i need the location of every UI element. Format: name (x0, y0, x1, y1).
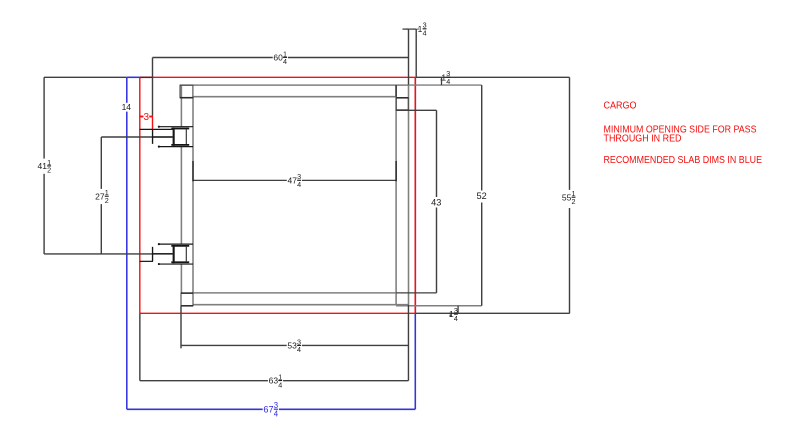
svg-text:63: 63 (269, 376, 279, 386)
svg-text:55: 55 (562, 192, 572, 202)
svg-text:4: 4 (278, 380, 282, 389)
svg-text:4: 4 (297, 345, 301, 354)
svg-text:3: 3 (144, 112, 150, 123)
svg-text:67: 67 (263, 405, 273, 415)
svg-text:53: 53 (287, 341, 297, 351)
svg-text:14: 14 (122, 102, 132, 112)
svg-text:52: 52 (476, 191, 486, 201)
svg-text:4: 4 (297, 180, 301, 189)
svg-text:4: 4 (423, 29, 427, 38)
svg-text:2: 2 (105, 196, 109, 205)
svg-text:47: 47 (288, 175, 298, 185)
svg-text:41: 41 (38, 161, 48, 171)
svg-text:4: 4 (283, 57, 287, 66)
svg-text:2: 2 (572, 197, 576, 206)
svg-text:43: 43 (431, 197, 441, 207)
svg-text:4: 4 (446, 77, 450, 86)
svg-text:27: 27 (95, 191, 105, 201)
svg-text:4: 4 (274, 410, 279, 419)
svg-text:CARGO: CARGO (604, 100, 637, 111)
svg-text:2: 2 (47, 166, 51, 175)
svg-text:60: 60 (273, 53, 283, 63)
svg-text:RECOMMENDED SLAB DIMS IN BLUE: RECOMMENDED SLAB DIMS IN BLUE (604, 155, 763, 166)
svg-text:4: 4 (454, 314, 458, 323)
svg-text:THROUGH IN RED: THROUGH IN RED (604, 134, 682, 145)
